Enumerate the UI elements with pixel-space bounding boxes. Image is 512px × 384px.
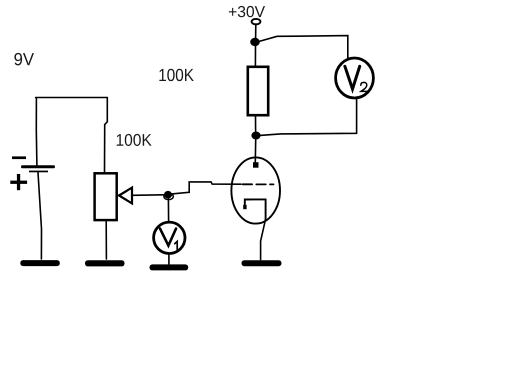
- label 100K (plate resistor): [159, 69, 193, 81]
- wire node A to R1: [254, 46, 256, 67]
- node B (bottom junction dot): [252, 132, 260, 139]
- triode U1 grid (dashed): [243, 183, 274, 185]
- ground (V1): [150, 264, 189, 270]
- wire node C to V1: [167, 198, 169, 221]
- battery B1 negative plate (long): [21, 165, 55, 168]
- potentiometer wiper arrow: [119, 188, 132, 204]
- label +30V: [229, 6, 265, 17]
- ground (potentiometer): [85, 260, 125, 266]
- ground (cathode): [242, 260, 282, 266]
- wire V1 to ground: [168, 254, 170, 264]
- voltmeter V1: [154, 222, 185, 253]
- wire node B to V2 bottom: [260, 98, 357, 135]
- label 9V: [14, 53, 34, 65]
- wire battery to ground: [38, 173, 42, 260]
- triode U1 envelope: [231, 157, 280, 223]
- wire cathode to ground: [261, 219, 266, 260]
- wire rail to potentiometer: [105, 98, 108, 173]
- node A (top junction dot): [251, 38, 260, 45]
- node C ring: [164, 193, 173, 199]
- wire potentiometer to ground: [105, 222, 107, 259]
- ground (battery): [20, 260, 60, 266]
- wire node B to plate: [254, 139, 256, 162]
- top rail wire: [36, 97, 108, 99]
- wire wiper to node C: [133, 194, 164, 197]
- supply terminal +30V: [252, 19, 261, 24]
- resistor R1 100K: [248, 67, 268, 115]
- cathode lead tick: [243, 205, 246, 209]
- wire node C to grid: [172, 182, 241, 194]
- potentiometer P1 100K body: [95, 173, 117, 220]
- battery B1 positive plate (short): [29, 171, 48, 173]
- wire terminal to node A: [255, 24, 257, 38]
- wire battery to top rail: [35, 98, 38, 165]
- label 100K (potentiometer): [117, 134, 152, 146]
- voltmeter V2: [336, 58, 374, 98]
- wire node A to V2 top: [259, 36, 348, 59]
- triode U1 plate (anode): [253, 162, 259, 168]
- triode U1 cathode: [245, 199, 266, 220]
- battery B1 minus sign: [12, 156, 26, 159]
- battery B1 plus sign: [10, 181, 27, 184]
- wire R1 to node B: [255, 116, 257, 132]
- node C (wiper junction dot): [164, 191, 171, 198]
